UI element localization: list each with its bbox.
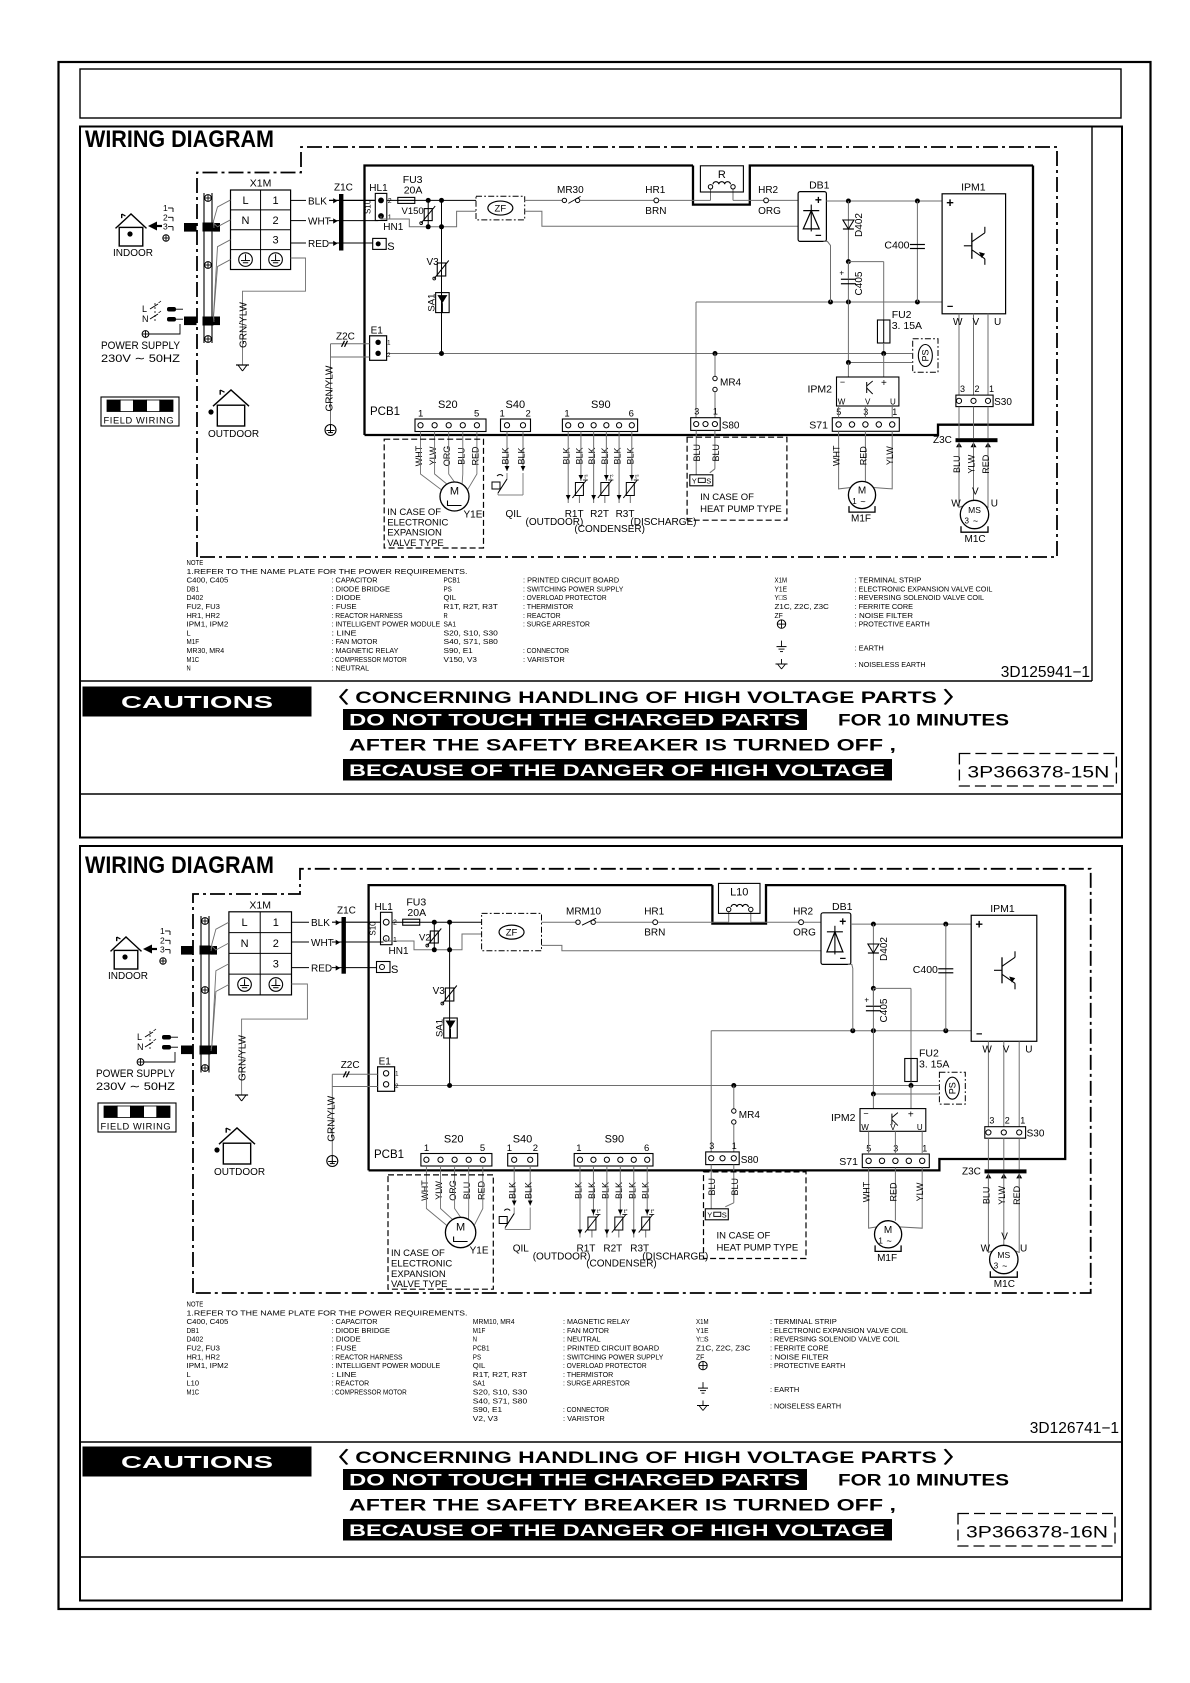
outdoor unit PCB boundary xyxy=(369,885,713,1170)
svg-text:R1T, R2T, R3T: R1T, R2T, R3T xyxy=(444,602,499,611)
terminal strip bar xyxy=(200,916,211,1073)
svg-text:ORG: ORG xyxy=(442,446,452,467)
svg-text:YLW: YLW xyxy=(915,1182,925,1201)
svg-text:+: + xyxy=(815,193,822,207)
wire N to DB1 xyxy=(525,211,798,226)
svg-text:3: 3 xyxy=(989,1116,994,1126)
svg-text:: INTELLIGENT POWER MODULE: : INTELLIGENT POWER MODULE xyxy=(332,620,441,629)
svg-text:1: 1 xyxy=(1020,1116,1025,1126)
svg-text:+: + xyxy=(839,269,844,278)
svg-text:N: N xyxy=(142,314,149,324)
capacitor C405 xyxy=(839,262,865,302)
svg-text:1: 1 xyxy=(273,917,279,929)
wire IPM2 minus to PS xyxy=(872,1031,874,1094)
connector E1 xyxy=(378,1056,400,1091)
svg-text:1: 1 xyxy=(732,1141,737,1151)
svg-text:−: − xyxy=(840,953,846,965)
svg-text:ORG: ORG xyxy=(448,1180,458,1201)
svg-text:N: N xyxy=(187,664,191,673)
svg-text:S: S xyxy=(706,476,711,485)
svg-text:BLK: BLK xyxy=(627,1182,637,1199)
svg-text:2: 2 xyxy=(388,198,392,205)
svg-text:V: V xyxy=(1001,1231,1008,1242)
wires S40 BLK to QIL xyxy=(492,432,583,529)
svg-text:YLW: YLW xyxy=(885,446,895,465)
connector S30 xyxy=(985,1116,1045,1140)
svg-text:L: L xyxy=(187,1370,191,1379)
svg-text:6: 6 xyxy=(644,1143,649,1154)
svg-text:Y1E: Y1E xyxy=(696,1326,709,1335)
wire 3 RED xyxy=(292,967,310,969)
svg-text:1: 1 xyxy=(273,195,279,207)
svg-text:BLK: BLK xyxy=(508,1182,518,1199)
wire HR1 to reactor xyxy=(658,921,729,923)
svg-text:1: 1 xyxy=(713,407,718,417)
svg-text:U: U xyxy=(994,317,1001,328)
svg-text:W: W xyxy=(953,317,963,328)
wire E1 to PS xyxy=(395,1085,940,1087)
svg-text:: CAPACITOR: : CAPACITOR xyxy=(332,1317,378,1326)
svg-text:X1M: X1M xyxy=(696,1317,709,1326)
svg-text:ZF: ZF xyxy=(506,928,518,939)
connector S xyxy=(377,962,399,977)
svg-text:PS: PS xyxy=(920,349,930,361)
svg-text:3: 3 xyxy=(273,959,279,971)
wire L noise filter to rectifier xyxy=(542,921,576,923)
svg-text:BLK: BLK xyxy=(587,447,597,464)
svg-text:C400, C405: C400, C405 xyxy=(187,576,229,585)
legend notes xyxy=(187,558,993,673)
svg-text:N: N xyxy=(137,1042,144,1052)
panel 1 legend divider xyxy=(80,680,1092,682)
surge arrestor SA1 xyxy=(426,293,449,313)
svg-text:WHT: WHT xyxy=(862,1181,872,1202)
svg-text:E1: E1 xyxy=(379,1056,392,1067)
svg-text:3D126741−1: 3D126741−1 xyxy=(1030,1420,1119,1437)
svg-text:BLU: BLU xyxy=(711,444,721,462)
wire negative rail xyxy=(711,1030,971,1032)
electronic expansion valve dashed box xyxy=(388,1175,493,1290)
power supply switch and plugs xyxy=(96,1029,178,1093)
svg-text:S80: S80 xyxy=(722,421,740,432)
svg-text:+: + xyxy=(946,195,954,210)
svg-text:: NEUTRAL: : NEUTRAL xyxy=(332,664,370,673)
wire N to DB1 xyxy=(542,945,822,950)
reactor R xyxy=(700,166,743,192)
svg-text:BRN: BRN xyxy=(644,928,665,939)
svg-text:: MAGNETIC RELAY: : MAGNETIC RELAY xyxy=(563,1317,630,1326)
svg-text:S20: S20 xyxy=(444,1134,464,1146)
svg-text:M: M xyxy=(450,486,459,498)
svg-text:: LINE: : LINE xyxy=(332,1370,357,1379)
svg-text:BLK: BLK xyxy=(517,447,527,464)
svg-text:: REACTOR: : REACTOR xyxy=(332,1379,370,1388)
svg-text:V: V xyxy=(972,486,979,497)
svg-text:BLK: BLK xyxy=(587,1182,597,1199)
connector S80 xyxy=(691,407,740,432)
svg-text:X1M: X1M xyxy=(775,576,788,585)
expansion valve motor Y1E xyxy=(440,482,483,521)
top header box xyxy=(80,69,1121,118)
wire HR1 to reactor xyxy=(659,199,711,201)
capacitor C400 xyxy=(884,201,925,302)
indoor terminal numbers 1 2 3 xyxy=(163,203,173,241)
svg-text:PCB1: PCB1 xyxy=(473,1344,490,1353)
connector S71 xyxy=(839,1131,929,1168)
capacitor C400 xyxy=(913,924,954,1031)
svg-text:E1: E1 xyxy=(371,325,384,336)
svg-text:V: V xyxy=(865,398,871,407)
svg-text:IN CASE OF: IN CASE OF xyxy=(717,1231,771,1242)
svg-text:S20, S10, S30: S20, S10, S30 xyxy=(473,1388,527,1397)
svg-text:D402: D402 xyxy=(879,937,890,961)
outdoor unit PCB boundary xyxy=(365,166,694,436)
svg-text:S90: S90 xyxy=(605,1134,625,1146)
svg-text:L: L xyxy=(242,195,248,207)
wire RED to S connector xyxy=(332,967,377,969)
svg-text:: OVERLOAD PROTECTOR: : OVERLOAD PROTECTOR xyxy=(563,1361,647,1370)
svg-text:GRN/YLW: GRN/YLW xyxy=(325,365,336,411)
svg-text:V2: V2 xyxy=(419,933,431,944)
svg-text:Z1C: Z1C xyxy=(334,183,353,194)
wire negative rail to S80 xyxy=(710,1031,712,1152)
svg-text:3: 3 xyxy=(964,517,969,526)
svg-text:RED: RED xyxy=(308,239,329,250)
svg-text:Y: Y xyxy=(707,1210,712,1219)
svg-text:GRN/YLW: GRN/YLW xyxy=(239,301,250,347)
svg-text:W: W xyxy=(861,1123,869,1132)
svg-text:2: 2 xyxy=(1005,1116,1010,1126)
svg-text:2: 2 xyxy=(975,384,980,394)
svg-text:YLW: YLW xyxy=(967,454,977,473)
svg-text:C400: C400 xyxy=(884,240,909,252)
svg-text:DB1: DB1 xyxy=(187,1326,200,1335)
svg-text:1: 1 xyxy=(418,409,423,420)
svg-text:〈 CONCERNING HANDLING OF HIGH: 〈 CONCERNING HANDLING OF HIGH VOLTAGE PA… xyxy=(326,688,966,707)
outdoor unit icon xyxy=(208,390,259,440)
wire HR2 to DB1 xyxy=(769,199,799,201)
field wiring boundary chain line xyxy=(193,869,1091,1293)
svg-text:S: S xyxy=(391,964,398,976)
svg-text:2: 2 xyxy=(533,1143,538,1154)
wire RED to S connector xyxy=(329,242,373,244)
capacitor C405 xyxy=(864,988,890,1030)
svg-text:IPM1: IPM1 xyxy=(990,903,1015,915)
svg-text:U: U xyxy=(1025,1044,1032,1055)
svg-text:M1C: M1C xyxy=(187,1388,200,1397)
svg-text:BLU: BLU xyxy=(692,444,702,462)
compressor motor M1C xyxy=(990,1245,1018,1290)
heat pump dashed box xyxy=(704,1172,807,1259)
svg-text:BLK: BLK xyxy=(574,447,584,464)
panel 1 cautions divider xyxy=(80,793,1122,795)
connector S90 xyxy=(562,399,637,432)
wire L S10 to noise filter xyxy=(392,921,482,923)
svg-text:3: 3 xyxy=(163,222,168,232)
wires S71 to fan motor xyxy=(832,431,896,489)
fuse FU2 3.15A xyxy=(848,262,922,354)
svg-text:1: 1 xyxy=(922,1144,927,1154)
svg-text:SA1: SA1 xyxy=(473,1379,486,1388)
svg-text:M: M xyxy=(456,1222,465,1234)
connector S30 xyxy=(956,384,1012,408)
wire L noise filter to rectifier xyxy=(525,199,563,201)
svg-text:BLK: BLK xyxy=(311,918,330,929)
wire negative rail to S80 xyxy=(695,302,697,418)
svg-text:S30: S30 xyxy=(1027,1129,1045,1140)
svg-text:BLK: BLK xyxy=(641,1182,651,1199)
svg-text:S90: S90 xyxy=(591,399,611,411)
svg-text:RED: RED xyxy=(470,446,480,466)
svg-text:: PROTECTIVE EARTH: : PROTECTIVE EARTH xyxy=(855,620,930,629)
svg-text:HEAT PUMP TYPE: HEAT PUMP TYPE xyxy=(717,1243,799,1254)
svg-text:~: ~ xyxy=(860,497,865,507)
relay contact MRM10 xyxy=(566,907,601,926)
svg-text:HR1: HR1 xyxy=(645,185,665,196)
svg-text:Y1E: Y1E xyxy=(470,1246,489,1257)
svg-text:1: 1 xyxy=(989,384,994,394)
svg-text:W: W xyxy=(982,1044,992,1055)
svg-text:1: 1 xyxy=(424,1143,429,1154)
svg-text:S71: S71 xyxy=(809,420,828,432)
high voltage warning text xyxy=(326,688,1009,781)
field wiring connectors xyxy=(184,223,220,325)
svg-text:Z3C: Z3C xyxy=(962,1166,981,1177)
svg-text:5: 5 xyxy=(480,1143,485,1154)
svg-text:: PROTECTIVE EARTH: : PROTECTIVE EARTH xyxy=(770,1361,845,1370)
intelligent power module IPM2 xyxy=(808,377,899,407)
svg-text:S20: S20 xyxy=(438,399,458,411)
wire N to noise filter xyxy=(386,934,482,950)
svg-text:: FERRITE CORE: : FERRITE CORE xyxy=(770,1344,829,1353)
svg-text:PS: PS xyxy=(947,1082,957,1094)
high voltage warning text xyxy=(326,1448,1009,1541)
indoor unit icon xyxy=(108,937,157,982)
connector S90 xyxy=(574,1134,653,1167)
harness plug HR2 ORG xyxy=(758,185,781,217)
field wiring legend xyxy=(98,1103,176,1132)
wire FU2 to IPM2 plus xyxy=(910,1086,912,1109)
svg-text:S30: S30 xyxy=(994,397,1012,408)
svg-text:: FERRITE CORE: : FERRITE CORE xyxy=(855,602,914,611)
svg-text:N: N xyxy=(473,1335,477,1344)
svg-text:: FUSE: : FUSE xyxy=(332,602,357,611)
earth wire GRN/YLW from X1M xyxy=(235,984,307,1101)
svg-text:230V ∼ 50HZ: 230V ∼ 50HZ xyxy=(96,1081,175,1093)
expansion valve motor Y1E xyxy=(445,1217,488,1256)
svg-text:CAUTIONS: CAUTIONS xyxy=(121,692,273,712)
svg-text:RED: RED xyxy=(1012,1185,1022,1205)
svg-text:CAUTIONS: CAUTIONS xyxy=(121,1452,273,1472)
svg-text:HN1: HN1 xyxy=(383,222,403,233)
wires S30 to compressor M1C xyxy=(951,407,998,510)
svg-text:: SURGE ARRESTOR: : SURGE ARRESTOR xyxy=(563,1379,630,1388)
wire FU2 to IPM2 plus xyxy=(883,354,885,378)
svg-text:M1C: M1C xyxy=(994,1279,1015,1290)
svg-text:HEAT PUMP TYPE: HEAT PUMP TYPE xyxy=(700,504,782,515)
wires IPM1 W V U to S30 xyxy=(953,314,1001,395)
svg-text:HR2: HR2 xyxy=(793,907,813,918)
svg-text:BLK: BLK xyxy=(600,1182,610,1199)
svg-text:M1F: M1F xyxy=(877,1253,897,1264)
harness plug HR1 BRN xyxy=(644,907,665,939)
svg-text:: OVERLOAD PROTECTOR: : OVERLOAD PROTECTOR xyxy=(523,593,607,602)
svg-text:S10: S10 xyxy=(369,921,378,936)
svg-text:: THERMISTOR: : THERMISTOR xyxy=(523,602,574,611)
svg-text:AFTER THE SAFETY BREAKER IS TU: AFTER THE SAFETY BREAKER IS TURNED OFF , xyxy=(349,737,896,755)
svg-text:t°: t° xyxy=(624,1209,628,1215)
svg-text:M1F: M1F xyxy=(473,1326,486,1335)
wire BLK to S10 xyxy=(332,921,381,923)
svg-text:t°: t° xyxy=(635,475,639,481)
svg-text:: TERMINAL STRIP: : TERMINAL STRIP xyxy=(770,1317,837,1326)
diode bridge DB1 xyxy=(821,901,853,965)
svg-text:BECAUSE OF THE DANGER OF HIGH: BECAUSE OF THE DANGER OF HIGH VOLTAGE xyxy=(349,762,885,780)
svg-text:DO NOT TOUCH THE CHARGED PARTS: DO NOT TOUCH THE CHARGED PARTS xyxy=(349,1472,800,1490)
svg-text:YLW: YLW xyxy=(997,1185,1007,1204)
svg-text:: FUSE: : FUSE xyxy=(332,1344,357,1353)
wire L BLK xyxy=(292,921,310,923)
panel 1 legend right border xyxy=(1091,127,1093,682)
svg-text:FIELD WIRING: FIELD WIRING xyxy=(104,416,175,426)
svg-text:VALVE TYPE: VALVE TYPE xyxy=(387,538,444,549)
svg-text:2: 2 xyxy=(393,920,397,927)
svg-text:FOR 10 MINUTES: FOR 10 MINUTES xyxy=(838,1472,1009,1490)
svg-text:V: V xyxy=(1003,1044,1010,1055)
svg-text:1: 1 xyxy=(388,215,392,222)
svg-text:HL1: HL1 xyxy=(375,902,394,913)
svg-text:: NOISELESS EARTH: : NOISELESS EARTH xyxy=(855,660,926,669)
varistor V150 xyxy=(402,198,436,229)
svg-text:WHT: WHT xyxy=(420,1180,430,1201)
intelligent power module IPM1 xyxy=(971,903,1037,1042)
fuse FU3 20A xyxy=(398,174,423,203)
wires X1M to terminal strip xyxy=(211,922,229,1051)
svg-text:: ELECTRONIC EXPANSION VALVE C: : ELECTRONIC EXPANSION VALVE COIL xyxy=(770,1326,908,1335)
ferrite core Z2C and wires xyxy=(331,332,370,358)
intelligent power module IPM2 xyxy=(831,1109,926,1132)
svg-text:: DIODE BRIDGE: : DIODE BRIDGE xyxy=(332,584,391,593)
svg-text:S90, E1: S90, E1 xyxy=(444,646,473,655)
svg-text:: EARTH: : EARTH xyxy=(770,1385,799,1394)
svg-text:HR1: HR1 xyxy=(644,907,664,918)
svg-text:MRM10: MRM10 xyxy=(566,907,601,918)
svg-text:PS: PS xyxy=(444,584,452,593)
intelligent power module IPM1 xyxy=(942,181,1006,313)
wires S30 to compressor M1C xyxy=(981,1138,1028,1254)
svg-text:〈 CONCERNING HANDLING OF HIGH: 〈 CONCERNING HANDLING OF HIGH VOLTAGE PA… xyxy=(326,1448,966,1467)
svg-text:DB1: DB1 xyxy=(832,901,853,913)
svg-text:: TERMINAL STRIP: : TERMINAL STRIP xyxy=(855,576,922,585)
ferrite core Z3C xyxy=(962,1166,1027,1178)
svg-text:U: U xyxy=(1020,1244,1027,1255)
svg-text:PS: PS xyxy=(473,1352,481,1361)
switching power supply PS xyxy=(913,339,938,373)
wires S40 BLK to QIL xyxy=(499,1166,590,1263)
svg-text:: REVERSING SOLENOID VALVE COI: : REVERSING SOLENOID VALVE COIL xyxy=(770,1335,900,1344)
svg-text:: DIODE: : DIODE xyxy=(332,593,361,602)
svg-text:MRM10, MR4: MRM10, MR4 xyxy=(473,1317,515,1326)
svg-text:S40: S40 xyxy=(506,399,526,411)
svg-text:GRN/YLW: GRN/YLW xyxy=(326,1095,337,1141)
switching power supply PS xyxy=(939,1072,965,1104)
svg-text:M1C: M1C xyxy=(187,655,200,664)
svg-text:U: U xyxy=(890,398,896,407)
svg-text:1.REFER TO THE NAME PLATE FOR: 1.REFER TO THE NAME PLATE FOR THE POWER … xyxy=(187,1308,468,1317)
wire N WHT xyxy=(292,941,310,943)
wire N to noise filter xyxy=(381,211,476,227)
svg-text:t°: t° xyxy=(610,475,614,481)
svg-text:PCB1: PCB1 xyxy=(444,576,461,585)
panel 2 cautions divider bottom xyxy=(80,1556,1122,1558)
svg-text:6: 6 xyxy=(629,409,634,420)
svg-text:BLK: BLK xyxy=(625,447,635,464)
indoor terminal numbers 1 2 3 xyxy=(160,926,170,964)
svg-text:BLK: BLK xyxy=(501,447,511,464)
svg-text:OUTDOOR: OUTDOOR xyxy=(208,429,259,440)
svg-text:IPM1, IPM2: IPM1, IPM2 xyxy=(187,620,229,629)
svg-text:R1T: R1T xyxy=(565,509,584,520)
svg-text:(DISCHARGE): (DISCHARGE) xyxy=(642,1252,708,1263)
svg-text:IPM1, IPM2: IPM1, IPM2 xyxy=(187,1361,229,1370)
svg-text:GRN/YLW: GRN/YLW xyxy=(238,1034,249,1080)
wire positive rail xyxy=(851,923,971,925)
svg-text:L: L xyxy=(137,1032,142,1042)
svg-text:ZF: ZF xyxy=(495,204,507,215)
svg-text:20A: 20A xyxy=(407,907,426,919)
noise filter ZF xyxy=(482,913,542,950)
svg-text:: REACTOR: : REACTOR xyxy=(523,611,561,620)
svg-text:S40: S40 xyxy=(513,1134,533,1146)
part number box xyxy=(959,754,1116,787)
svg-text:: LINE: : LINE xyxy=(332,628,357,637)
svg-text:S10: S10 xyxy=(363,199,372,214)
svg-text:D402: D402 xyxy=(187,1335,204,1344)
wire WHT to S10 xyxy=(329,220,378,222)
wire DB1 minus xyxy=(823,241,830,302)
svg-text:: CAPACITOR: : CAPACITOR xyxy=(332,576,378,585)
wire reactor to HR2 xyxy=(733,199,764,201)
svg-text:t°: t° xyxy=(584,475,588,481)
svg-text:: INTELLIGENT POWER MODULE: : INTELLIGENT POWER MODULE xyxy=(332,1361,441,1370)
svg-text:20A: 20A xyxy=(404,185,423,197)
svg-text:IPM1: IPM1 xyxy=(961,181,986,193)
svg-text:L: L xyxy=(142,304,147,314)
svg-text:: COMPRESSOR MOTOR: : COMPRESSOR MOTOR xyxy=(332,1388,408,1397)
svg-text:3: 3 xyxy=(160,945,165,955)
svg-text:QIL: QIL xyxy=(473,1361,486,1370)
svg-text:C400, C405: C400, C405 xyxy=(187,1317,229,1326)
svg-text:−: − xyxy=(863,1109,868,1119)
svg-text:RED: RED xyxy=(311,964,332,975)
svg-text:R2T: R2T xyxy=(590,509,609,520)
svg-text:D402: D402 xyxy=(187,593,204,602)
svg-text:X1M: X1M xyxy=(249,899,271,911)
svg-text:BLU: BLU xyxy=(456,447,466,465)
svg-text:ZF: ZF xyxy=(775,611,784,620)
svg-text:3: 3 xyxy=(709,1141,714,1151)
svg-text:: NOISE FILTER: : NOISE FILTER xyxy=(770,1352,829,1361)
relay contact MR4 xyxy=(713,354,742,418)
svg-text:HN1: HN1 xyxy=(389,946,409,957)
svg-text:WIRING DIAGRAM: WIRING DIAGRAM xyxy=(85,852,274,879)
diode D402 xyxy=(843,201,865,264)
svg-text:INDOOR: INDOOR xyxy=(113,248,153,259)
wires S80 BLU to Y-S xyxy=(707,1165,740,1209)
svg-text:BLK: BLK xyxy=(562,447,572,464)
wires S20 to expansion valve coil Y1E xyxy=(420,1166,486,1226)
svg-text:~: ~ xyxy=(973,516,978,526)
